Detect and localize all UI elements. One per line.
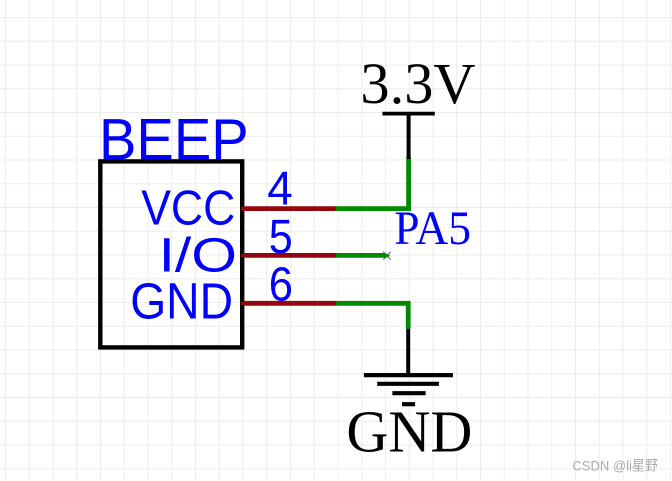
svg-text:3.3V: 3.3V	[360, 51, 475, 116]
svg-text:CSDN @li星野: CSDN @li星野	[572, 457, 658, 473]
ground symbol: vertical stem	[406, 329, 410, 376]
buzzer component BEEP body	[100, 161, 242, 347]
ground symbol: bar 3	[392, 391, 425, 395]
svg-text:BEEP: BEEP	[99, 108, 249, 173]
wire from pin 4 to 3.3V rail	[336, 157, 409, 208]
svg-text:GND: GND	[130, 272, 233, 329]
ground symbol: bar 1	[364, 373, 453, 377]
svg-text:VCC: VCC	[141, 181, 235, 235]
pin 6 stub (GND pin)	[244, 301, 336, 306]
power symbol 3.3V: vertical stem	[407, 114, 411, 159]
pin 4 stub (VCC pin)	[244, 206, 336, 211]
svg-text:GND: GND	[346, 399, 472, 465]
pin 5 stub (I/O pin)	[244, 253, 336, 258]
ground symbol: bar 2	[377, 382, 439, 386]
wire from pin 6 to ground	[336, 303, 409, 328]
wire taper at dangling end of PA5 wire	[385, 253, 390, 258]
dangling wire end marker (small cross)	[383, 252, 391, 260]
svg-text:PA5: PA5	[394, 203, 471, 255]
power symbol 3.3V: horizontal bar	[382, 112, 434, 116]
ground symbol: bar 4	[402, 402, 415, 406]
wire from pin 5 (net PA5)	[336, 253, 386, 258]
